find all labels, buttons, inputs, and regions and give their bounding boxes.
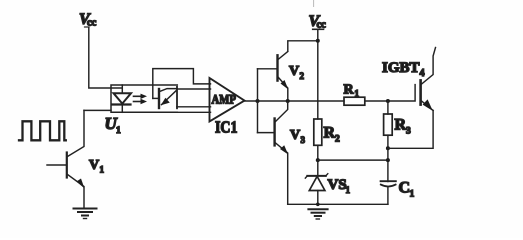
label R3 [395,117,412,137]
capacitor C1 [381,181,396,204]
svg-text:AMP: AMP [212,92,237,107]
svg-text:4: 4 [420,68,425,79]
node zener top junction [316,158,320,162]
label VS1 [328,177,351,195]
wire photocollector to AMP [177,88,211,90]
node base-split junction [256,99,260,103]
V1 emitter [68,175,85,208]
V3 collector [275,101,288,122]
node C1 top junction [386,158,390,162]
label R2 [324,125,341,145]
V3 emitter arrow [280,145,288,154]
LED cathode bar [113,103,131,105]
LED triangle [114,93,132,103]
svg-text:3: 3 [301,135,306,145]
label V2 [289,64,305,81]
phototransistor (inside U1) [153,89,177,108]
node Vcc (left) [79,11,97,29]
resistor R2 [314,119,322,145]
wire emitter return [388,111,433,149]
label V3 [290,128,306,145]
optocoupler U1 package box [111,85,177,112]
V2 base bar [276,55,278,80]
V1 collector [68,110,85,156]
square wave input signal [19,121,66,140]
wire base split vertical [257,69,259,133]
zener cathode bar [307,175,326,177]
zener anode lead [317,191,319,205]
wire R1 to IGBT gate [365,85,415,101]
svg-text:VS: VS [328,177,347,193]
wire photoemitter to AMP [177,106,211,108]
IGBT main bar [419,80,422,104]
svg-text:V: V [290,128,300,143]
svg-text:V: V [89,158,99,173]
V1 base lead [47,164,66,166]
transistor V1 [47,110,85,207]
svg-text:R: R [324,125,336,142]
wire R2 bottom to zener [317,145,319,176]
svg-text:V: V [289,64,299,79]
resistor R1 [344,97,365,105]
ground (below V1) [74,209,97,219]
LED cathode stub [121,105,123,113]
node Vcc (middle) [309,13,327,31]
V2 emitter arrow [281,80,289,90]
V1 base bar [66,153,68,178]
scan artifact tick [313,0,315,7]
ground (below VS1) [308,209,327,219]
V2 emitter [278,77,288,101]
light arrows [134,94,148,105]
transistor V2 [278,52,289,102]
label IGBT4 [382,60,425,79]
label R1 [344,83,360,99]
base bar [158,89,160,108]
V1 emitter arrow [77,179,85,189]
label C1 [399,180,415,200]
svg-text:1: 1 [346,185,351,195]
svg-text:1: 1 [116,126,121,136]
wire V3 base stub [258,132,274,134]
svg-text:3: 3 [406,127,411,137]
wire Vcc-left to opto LED anode [89,28,123,89]
V3 emitter [275,143,288,205]
wire V2 base stub [258,68,277,70]
svg-text:IGBT: IGBT [382,60,420,76]
collector lead [160,89,177,92]
svg-text:R: R [344,83,355,98]
IGBT4 [421,48,436,111]
wire AMP output to R1 [245,100,345,102]
emitter diagonal [162,91,177,105]
svg-text:1: 1 [410,190,415,200]
node emitter junction [286,99,290,103]
C1 bottom lead [387,187,389,204]
wire zener node to C1 [318,159,388,161]
wire photobase loop to AMP top input [153,69,211,99]
op-amp IC1 (AMP triangle) [210,78,245,122]
zener diode VS1 [305,174,328,205]
node rail-zener junction [316,203,320,207]
label V1 [89,158,105,175]
zener triangle [309,176,325,190]
C1 top plate [381,180,396,182]
wire LED cathode to V1 collector [84,109,111,111]
svg-text:2: 2 [335,135,340,145]
svg-text:R: R [395,117,407,134]
node gate junction [386,99,390,103]
wire Vcc-mid rail down to R2 [317,30,319,120]
IGBT emitter arrow [423,99,433,111]
node junction Vcc rail [316,39,320,43]
resistor R3 [387,101,389,114]
wire R3 bottom down to C1 [387,135,389,181]
wire V2 collector to Vcc rail [288,41,318,51]
C1 bottom plate (curved) [381,185,396,187]
label U1 [105,114,122,136]
V3 base bar [273,119,275,146]
transistor V3 [275,101,289,204]
svg-text:C: C [399,180,411,197]
LED D1 (inside U1) [113,85,132,112]
emitter arrow [161,98,170,106]
IGBT collector [421,48,436,85]
svg-text:1: 1 [100,165,105,175]
base stub [153,97,159,99]
bottom rail wire [288,203,388,205]
svg-text:1: 1 [355,89,360,99]
wire box bottom to AMP lower input [177,111,210,113]
svg-text:2: 2 [300,71,305,81]
IGBT emitter [421,101,433,111]
node R3-emitter junction [386,146,390,150]
V2 collector [278,52,288,60]
svg-text:IC1: IC1 [215,118,238,137]
LED anode stub [121,85,123,93]
